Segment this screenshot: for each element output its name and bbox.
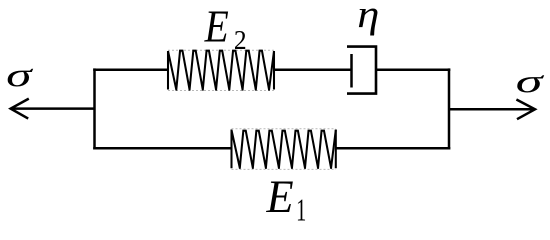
svg-text:σ: σ bbox=[6, 57, 33, 94]
label E2 bbox=[204, 2, 229, 52]
dashpot piston bbox=[350, 54, 353, 88]
wire bottom-right bbox=[336, 147, 451, 150]
label sigma left bbox=[6, 57, 33, 94]
svg-text:1: 1 bbox=[296, 192, 306, 226]
wire spring to dashpot bbox=[274, 68, 352, 71]
wire bottom-left bbox=[93, 147, 231, 150]
svg-text:2: 2 bbox=[234, 24, 247, 55]
spring E2 bounds (faint) bbox=[168, 50, 274, 90]
svg-text:η: η bbox=[357, 0, 379, 36]
label E1 bbox=[266, 171, 294, 222]
label sigma right bbox=[516, 63, 545, 100]
label eta bbox=[357, 0, 379, 36]
svg-text:E: E bbox=[266, 171, 294, 222]
dashpot cup bbox=[347, 47, 376, 94]
left arrow bbox=[11, 99, 95, 119]
spring E1 bbox=[232, 130, 336, 169]
right arrow bbox=[449, 100, 535, 120]
left vertical wire bbox=[93, 68, 96, 149]
svg-text:σ: σ bbox=[516, 63, 545, 100]
wire top-left bbox=[93, 68, 168, 71]
wire dashpot to right bbox=[376, 68, 450, 71]
svg-text:E: E bbox=[204, 2, 229, 52]
right vertical wire bbox=[448, 68, 451, 149]
spring E2 bbox=[168, 51, 274, 90]
spring E1 bounds (faint) bbox=[232, 129, 336, 170]
